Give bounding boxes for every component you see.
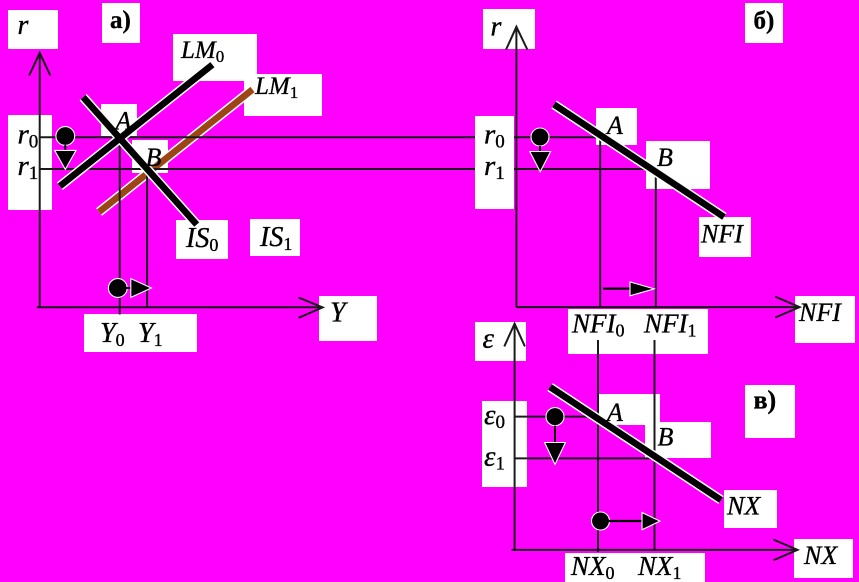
NFI curve xyxy=(554,105,724,218)
white label boxes (panel v) xyxy=(475,322,853,582)
dropline NFI0 xyxy=(599,137,601,307)
dropline NX1 xyxy=(654,340,656,550)
r0 horizontal line xyxy=(40,136,600,138)
white label boxes (panel b) xyxy=(483,3,855,354)
svg-text:r: r xyxy=(491,12,502,43)
dropline Y1 xyxy=(146,169,148,307)
white label boxes (panel a) xyxy=(8,3,377,352)
IS curve halo xyxy=(60,65,213,225)
IS0 curve xyxy=(83,97,197,224)
svg-text:r: r xyxy=(18,10,29,41)
svg-text:B: B xyxy=(657,143,673,172)
panel b x-axis xyxy=(516,306,799,308)
panel v y-axis xyxy=(514,324,516,550)
svg-text:NFI: NFI xyxy=(798,298,842,327)
panel b y-axis xyxy=(515,27,517,307)
svg-text:а): а) xyxy=(110,7,131,34)
svg-text:A: A xyxy=(605,111,623,140)
NX curve xyxy=(550,387,721,500)
dropline NX0 xyxy=(597,340,599,552)
r0 r1 label box of panel b (hides lines) xyxy=(475,116,514,209)
dropline NFI1 xyxy=(655,169,657,307)
svg-text:в): в) xyxy=(754,386,777,415)
svg-text:NX: NX xyxy=(803,541,838,570)
LM0 curve xyxy=(60,65,213,187)
svg-text:ε: ε xyxy=(483,323,495,355)
LM1 curve (brown, under thin lines) xyxy=(99,90,253,213)
eps1 horizontal line xyxy=(515,457,655,459)
panel v x-axis xyxy=(512,549,798,551)
svg-text:б): б) xyxy=(754,8,775,35)
svg-text:A: A xyxy=(114,107,132,136)
panel a y-axis xyxy=(39,53,41,307)
marker: r falls (panel b) xyxy=(530,128,551,172)
marker: Y rises (panel a) xyxy=(108,279,151,298)
dropline Y0 xyxy=(119,137,121,314)
marker: r falls (panel a) xyxy=(55,127,76,170)
svg-text:B: B xyxy=(658,423,674,452)
svg-text:NFI: NFI xyxy=(700,220,744,249)
marker: eps falls (panel v) xyxy=(545,408,566,465)
svg-text:A: A xyxy=(605,398,623,427)
eps0 horizontal line xyxy=(515,416,598,418)
thin lines xyxy=(40,137,657,552)
r1 horizontal line xyxy=(40,168,657,170)
svg-text:B: B xyxy=(146,143,162,172)
marker: NFI rises arrow (panel b) xyxy=(603,282,654,296)
marker: NX rises (panel v) xyxy=(592,512,661,530)
svg-text:NX: NX xyxy=(726,492,761,521)
panel a x-axis xyxy=(37,306,323,308)
